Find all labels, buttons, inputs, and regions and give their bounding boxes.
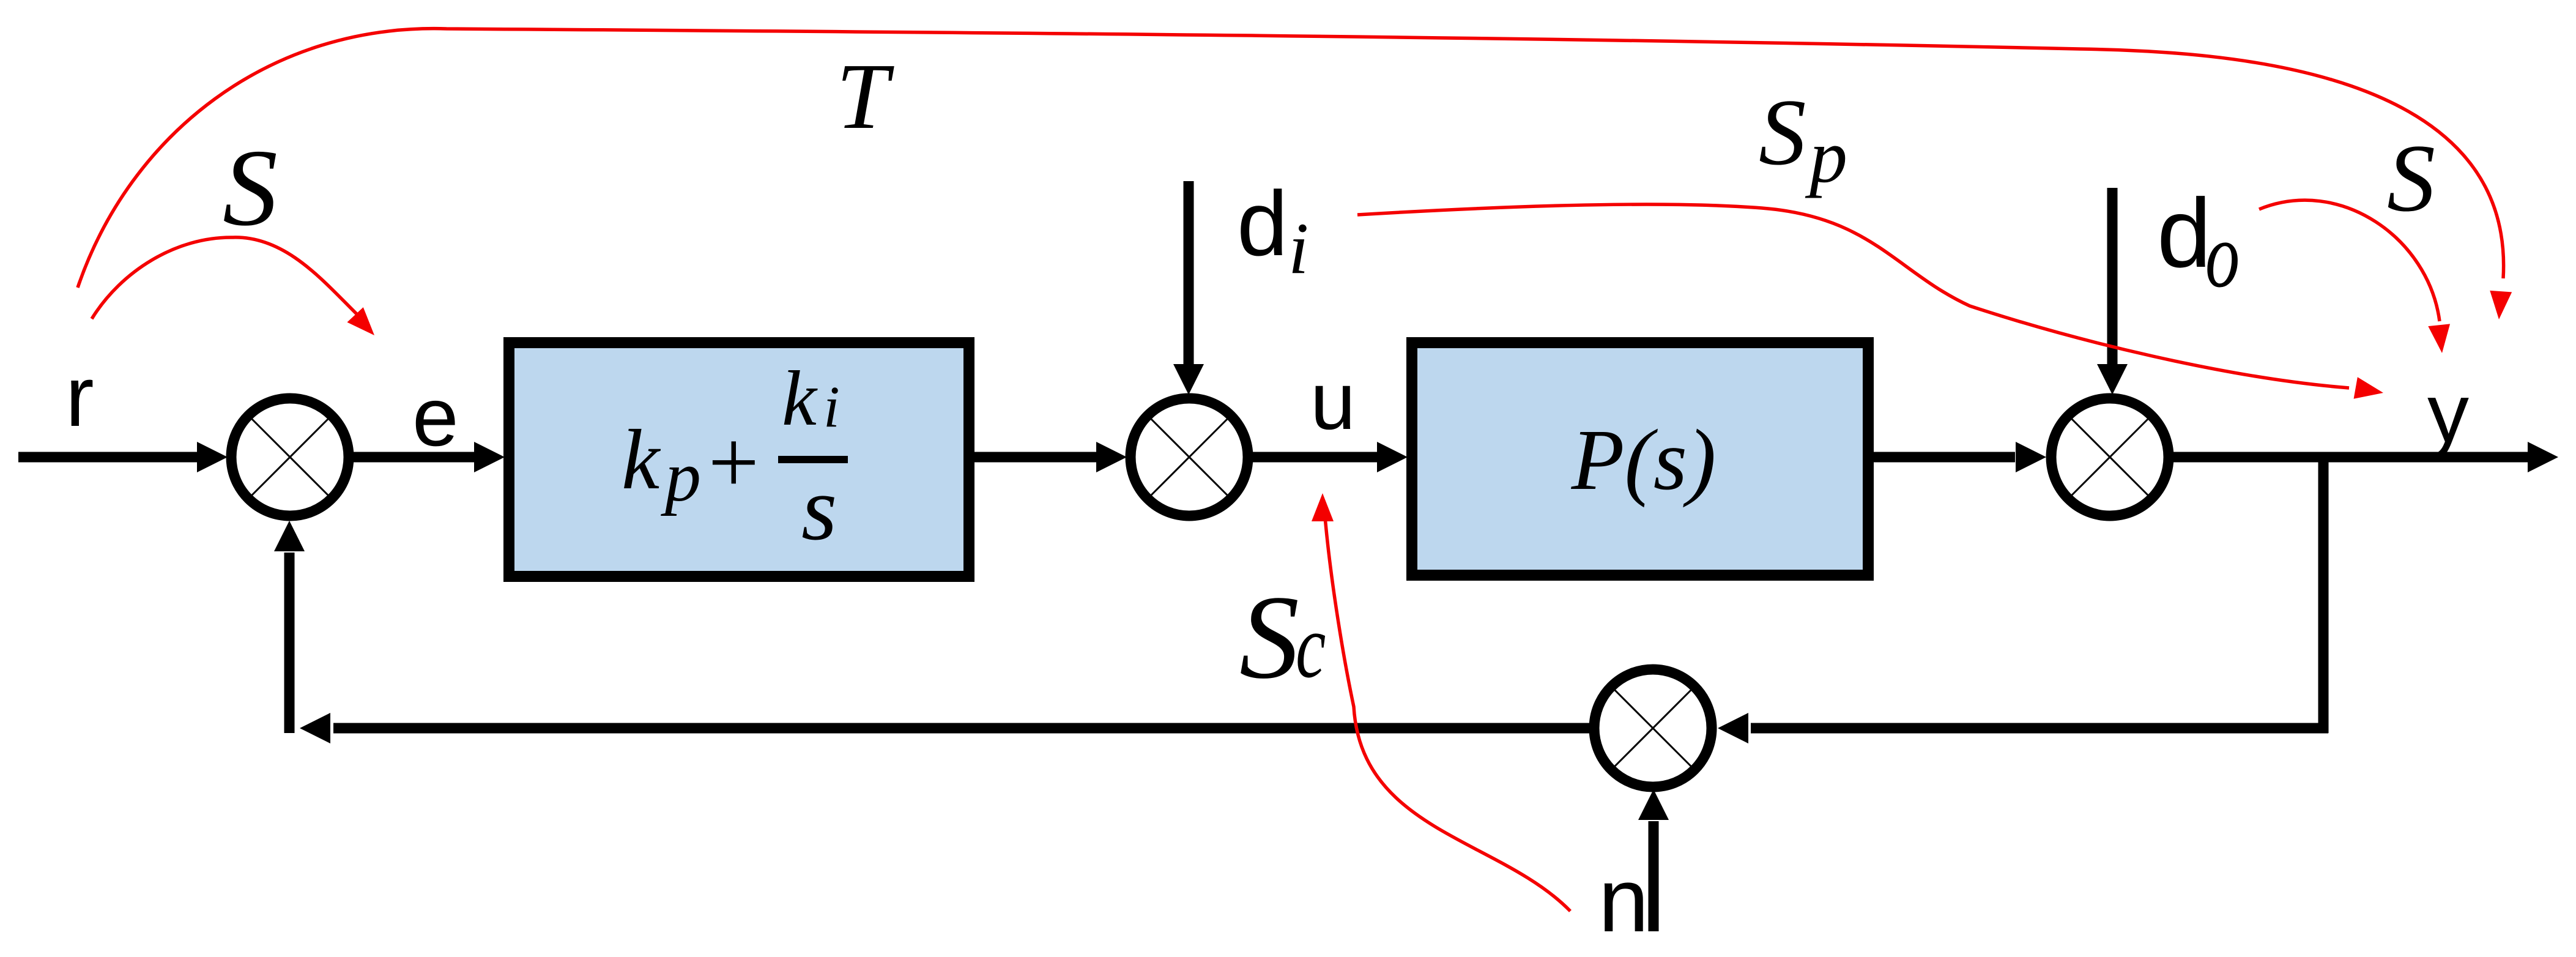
svg-text:s: s bbox=[801, 458, 837, 559]
svg-text:k: k bbox=[622, 412, 661, 507]
wire d_o input bbox=[2097, 188, 2128, 395]
svg-text:u: u bbox=[1310, 356, 1356, 447]
wire feedback branch down bbox=[2318, 457, 2329, 733]
svg-text:i: i bbox=[823, 374, 840, 439]
svg-text:d: d bbox=[2157, 178, 2211, 288]
svg-text:S: S bbox=[2387, 125, 2435, 232]
red curve S_c (from n to u) bbox=[1312, 493, 1570, 911]
svg-text:S: S bbox=[223, 127, 278, 248]
node d_o label bbox=[2157, 178, 2240, 307]
svg-text:S: S bbox=[1239, 571, 1299, 704]
wire feedback bottom right segment bbox=[1718, 713, 2328, 743]
label S_p bbox=[1759, 80, 1847, 198]
svg-text:+: + bbox=[702, 412, 763, 513]
svg-text:y: y bbox=[2427, 367, 2469, 460]
summing junction 3 bbox=[2051, 398, 2169, 516]
red curve S_p (from d_i to y) bbox=[1357, 204, 2385, 404]
plant block P(s) bbox=[1412, 343, 1868, 575]
svg-text:c: c bbox=[1296, 595, 1326, 697]
svg-text:S: S bbox=[1759, 80, 1806, 185]
wire feedback bottom left segment bbox=[300, 713, 1589, 743]
summing junction 2 bbox=[1130, 398, 1248, 516]
svg-text:p: p bbox=[1805, 114, 1847, 198]
node d_i label bbox=[1237, 172, 1308, 289]
controller block kp+ki/s bbox=[509, 343, 969, 576]
red arrow S (left, to junction 1) bbox=[92, 237, 382, 343]
svg-text:i: i bbox=[1288, 207, 1308, 289]
svg-text:d: d bbox=[1237, 172, 1288, 275]
wire r input bbox=[18, 442, 228, 472]
label S_c bbox=[1239, 571, 1326, 704]
wire n input bbox=[1638, 789, 1669, 931]
wire controller to junction 2 bbox=[974, 442, 1127, 472]
svg-text:n: n bbox=[1598, 850, 1649, 951]
wire plant to junction 3 bbox=[1874, 442, 2046, 472]
summing junction 4 bbox=[1594, 669, 1712, 787]
svg-text:e: e bbox=[412, 370, 459, 463]
svg-text:P(s): P(s) bbox=[1571, 411, 1717, 508]
svg-text:r: r bbox=[65, 348, 94, 444]
wire d_i input bbox=[1173, 181, 1204, 395]
red arrow S (right, to y) bbox=[2259, 200, 2453, 354]
svg-text:o: o bbox=[2205, 204, 2240, 307]
summing junction 1 bbox=[231, 398, 349, 516]
wire u: junction 2 to plant bbox=[1253, 442, 1408, 472]
svg-text:T: T bbox=[836, 45, 894, 149]
red curve T (complementary sensitivity) bbox=[78, 29, 2512, 321]
svg-text:p: p bbox=[661, 436, 701, 516]
wire e: junction 1 to controller bbox=[354, 442, 505, 472]
svg-text:k: k bbox=[782, 355, 818, 442]
wire y output bbox=[2173, 442, 2558, 472]
wire feedback up to junction 1 bbox=[274, 521, 305, 733]
